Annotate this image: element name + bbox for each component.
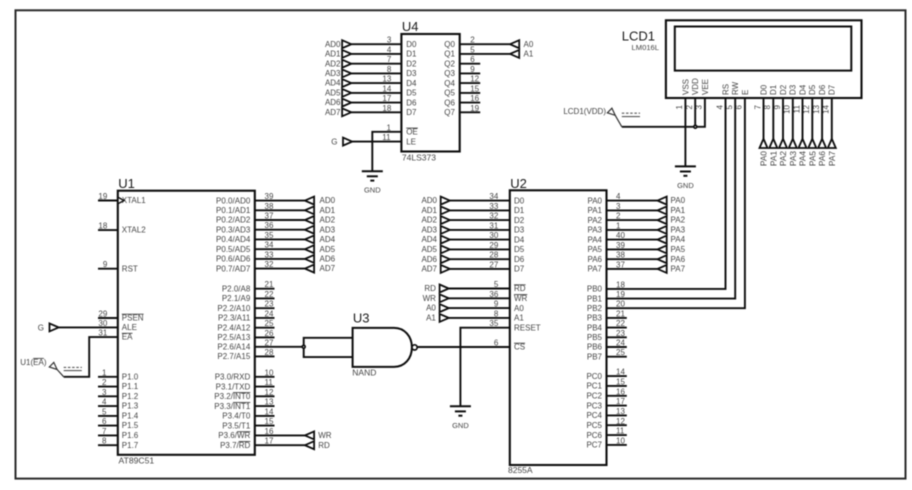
- svg-text:12: 12: [616, 417, 625, 426]
- svg-text:P3.6/WR: P3.6/WR: [218, 431, 250, 440]
- svg-text:RW: RW: [731, 81, 740, 95]
- svg-text:15: 15: [265, 417, 274, 426]
- svg-text:18: 18: [616, 280, 625, 289]
- svg-text:P0.3/AD3: P0.3/AD3: [216, 225, 251, 234]
- svg-text:PA3: PA3: [788, 151, 798, 166]
- svg-text:7: 7: [753, 104, 762, 109]
- svg-text:P1.4: P1.4: [122, 412, 139, 421]
- svg-text:P2.2/A10: P2.2/A10: [217, 304, 250, 313]
- svg-text:PSEN: PSEN: [122, 314, 144, 323]
- svg-text:7: 7: [387, 55, 392, 64]
- svg-text:PA2: PA2: [778, 151, 788, 166]
- svg-text:P0.4/AD4: P0.4/AD4: [216, 235, 251, 244]
- svg-text:36: 36: [489, 290, 498, 299]
- svg-text:D1: D1: [406, 50, 417, 59]
- svg-text:9: 9: [494, 300, 499, 309]
- svg-text:VSS: VSS: [681, 79, 690, 95]
- svg-text:PA5: PA5: [671, 245, 686, 254]
- svg-text:PC4: PC4: [586, 411, 602, 420]
- svg-text:D0: D0: [406, 40, 417, 49]
- svg-text:D6: D6: [406, 98, 417, 107]
- svg-text:AD2: AD2: [320, 216, 336, 225]
- svg-text:A0: A0: [524, 40, 534, 49]
- svg-text:27: 27: [265, 338, 274, 347]
- svg-text:PA3: PA3: [671, 226, 686, 235]
- svg-text:24: 24: [616, 339, 625, 348]
- svg-text:PB0: PB0: [587, 285, 603, 294]
- svg-text:PC7: PC7: [586, 441, 602, 450]
- svg-text:11: 11: [616, 427, 625, 436]
- svg-text:WR: WR: [514, 294, 528, 303]
- svg-text:P1.7: P1.7: [122, 441, 139, 450]
- svg-text:30: 30: [489, 231, 498, 240]
- svg-text:P0.6/AD6: P0.6/AD6: [216, 255, 251, 264]
- svg-text:PA4: PA4: [587, 235, 602, 244]
- svg-text:P2.4/A12: P2.4/A12: [217, 323, 250, 332]
- svg-text:P0.7/AD7: P0.7/AD7: [216, 264, 251, 273]
- svg-text:Q1: Q1: [444, 50, 455, 59]
- svg-text:17: 17: [265, 437, 274, 446]
- svg-text:P3.4/T0: P3.4/T0: [222, 412, 251, 421]
- svg-text:Q3: Q3: [444, 69, 455, 78]
- svg-text:23: 23: [265, 300, 274, 309]
- svg-text:34: 34: [265, 241, 274, 250]
- svg-text:D5: D5: [406, 89, 417, 98]
- svg-text:19: 19: [98, 192, 107, 201]
- svg-text:U1: U1: [118, 176, 135, 191]
- svg-text:U4: U4: [402, 19, 419, 34]
- svg-text:WR: WR: [423, 294, 437, 303]
- svg-text:U2: U2: [510, 176, 527, 191]
- svg-text:29: 29: [489, 241, 498, 250]
- svg-text:A0: A0: [514, 304, 524, 313]
- svg-text:PA6: PA6: [817, 151, 827, 166]
- svg-text:38: 38: [265, 202, 274, 211]
- svg-text:1: 1: [102, 368, 107, 377]
- svg-text:AD4: AD4: [421, 235, 437, 244]
- svg-text:13: 13: [616, 407, 625, 416]
- svg-text:NAND: NAND: [352, 367, 376, 377]
- svg-text:Q2: Q2: [444, 59, 455, 68]
- svg-text:U3: U3: [353, 311, 370, 326]
- svg-text:38: 38: [616, 251, 625, 260]
- svg-text:D6: D6: [514, 255, 525, 264]
- svg-text:7: 7: [102, 427, 107, 436]
- svg-text:OE: OE: [406, 128, 418, 137]
- svg-text:2: 2: [616, 212, 621, 221]
- svg-text:4: 4: [387, 45, 392, 54]
- svg-text:D1: D1: [514, 206, 525, 215]
- svg-text:6: 6: [494, 338, 499, 347]
- svg-text:P1.6: P1.6: [122, 431, 139, 440]
- svg-text:AD4: AD4: [320, 235, 336, 244]
- svg-text:AD7: AD7: [320, 264, 336, 273]
- svg-text:D7: D7: [406, 108, 417, 117]
- svg-text:PB6: PB6: [587, 343, 603, 352]
- svg-text:P1.2: P1.2: [122, 392, 139, 401]
- svg-text:D3: D3: [514, 226, 525, 235]
- svg-text:PA1: PA1: [768, 151, 778, 166]
- svg-text:PB7: PB7: [587, 352, 603, 361]
- svg-text:AD1: AD1: [325, 50, 341, 59]
- svg-text:8: 8: [387, 65, 392, 74]
- svg-text:PC6: PC6: [586, 431, 602, 440]
- svg-text:PA1: PA1: [587, 206, 602, 215]
- svg-text:24: 24: [265, 309, 274, 318]
- svg-text:PA0: PA0: [587, 196, 602, 205]
- svg-text:D4: D4: [514, 235, 525, 244]
- svg-text:WR: WR: [318, 431, 332, 440]
- svg-text:36: 36: [265, 221, 274, 230]
- svg-text:1: 1: [616, 221, 621, 230]
- svg-text:8255A: 8255A: [508, 465, 533, 475]
- svg-text:26: 26: [265, 329, 274, 338]
- svg-text:D6: D6: [818, 84, 827, 95]
- svg-text:CS: CS: [514, 343, 525, 352]
- svg-text:PA7: PA7: [827, 151, 837, 166]
- svg-text:13: 13: [382, 75, 391, 84]
- svg-text:AD0: AD0: [421, 196, 437, 205]
- svg-text:11: 11: [265, 378, 274, 387]
- svg-text:PB4: PB4: [587, 323, 603, 332]
- svg-text:74LS373: 74LS373: [402, 152, 436, 162]
- svg-text:RD: RD: [318, 441, 330, 450]
- svg-text:AD2: AD2: [421, 216, 437, 225]
- svg-text:3: 3: [102, 388, 107, 397]
- svg-text:17: 17: [616, 397, 625, 406]
- svg-text:RD: RD: [514, 284, 526, 293]
- svg-text:D3: D3: [406, 69, 417, 78]
- svg-text:PB1: PB1: [587, 294, 603, 303]
- svg-text:19: 19: [616, 290, 625, 299]
- svg-text:PC5: PC5: [586, 421, 602, 430]
- svg-text:23: 23: [616, 329, 625, 338]
- svg-text:27: 27: [489, 260, 498, 269]
- svg-text:PC2: PC2: [586, 392, 602, 401]
- svg-text:VEE: VEE: [701, 79, 710, 95]
- svg-text:37: 37: [265, 212, 274, 221]
- svg-text:PA4: PA4: [798, 151, 808, 166]
- svg-text:P3.2/INT0: P3.2/INT0: [214, 392, 251, 401]
- svg-text:5: 5: [102, 407, 107, 416]
- svg-text:AD6: AD6: [421, 255, 437, 264]
- svg-text:40: 40: [616, 231, 625, 240]
- svg-text:1: 1: [387, 123, 392, 132]
- svg-text:21: 21: [616, 309, 625, 318]
- svg-text:8: 8: [102, 437, 107, 446]
- svg-text:25: 25: [616, 348, 625, 357]
- svg-text:22: 22: [265, 290, 274, 299]
- svg-text:28: 28: [489, 251, 498, 260]
- svg-text:3: 3: [616, 202, 621, 211]
- svg-text:35: 35: [489, 319, 498, 328]
- svg-text:RESET: RESET: [514, 323, 541, 332]
- svg-text:33: 33: [489, 202, 498, 211]
- svg-text:P2.7/A15: P2.7/A15: [217, 352, 250, 361]
- svg-text:37: 37: [616, 260, 625, 269]
- svg-text:RST: RST: [122, 264, 138, 273]
- svg-text:PB2: PB2: [587, 304, 603, 313]
- svg-text:PB5: PB5: [587, 333, 603, 342]
- svg-text:14: 14: [265, 407, 274, 416]
- svg-text:2: 2: [102, 378, 107, 387]
- svg-text:5: 5: [494, 280, 499, 289]
- svg-text:AD3: AD3: [325, 69, 341, 78]
- svg-text:PA1: PA1: [671, 206, 686, 215]
- svg-text:AD5: AD5: [325, 89, 341, 98]
- svg-text:G: G: [38, 323, 44, 332]
- svg-text:AD5: AD5: [421, 245, 437, 254]
- svg-text:D0: D0: [514, 196, 525, 205]
- svg-text:8: 8: [494, 309, 499, 318]
- svg-text:RS: RS: [721, 84, 730, 95]
- svg-text:A1: A1: [524, 50, 534, 59]
- svg-text:13: 13: [265, 398, 274, 407]
- svg-text:D2: D2: [514, 216, 525, 225]
- svg-text:31: 31: [489, 221, 498, 230]
- svg-text:E: E: [741, 90, 750, 95]
- svg-text:PA4: PA4: [671, 235, 686, 244]
- svg-text:6: 6: [102, 417, 107, 426]
- svg-text:P3.5/T1: P3.5/T1: [222, 421, 251, 430]
- svg-text:AD0: AD0: [325, 40, 341, 49]
- svg-text:D4: D4: [406, 79, 417, 88]
- svg-text:AD1: AD1: [421, 206, 437, 215]
- svg-text:AD3: AD3: [320, 225, 336, 234]
- svg-text:LM016L: LM016L: [632, 43, 659, 52]
- svg-text:D3: D3: [789, 84, 798, 95]
- svg-text:PC1: PC1: [586, 382, 602, 391]
- svg-text:22: 22: [616, 319, 625, 328]
- svg-text:Q5: Q5: [444, 89, 455, 98]
- svg-text:16: 16: [265, 427, 274, 436]
- svg-text:PA0: PA0: [671, 196, 686, 205]
- svg-text:PA7: PA7: [671, 265, 686, 274]
- svg-text:18: 18: [382, 104, 391, 113]
- svg-text:A0: A0: [426, 304, 436, 313]
- svg-text:P1.5: P1.5: [122, 421, 139, 430]
- svg-text:AD6: AD6: [325, 98, 341, 107]
- svg-text:AT89C51: AT89C51: [119, 456, 155, 466]
- svg-text:16: 16: [616, 387, 625, 396]
- svg-text:EA: EA: [122, 333, 133, 342]
- svg-text:17: 17: [382, 94, 391, 103]
- svg-text:AD1: AD1: [320, 206, 336, 215]
- svg-text:11: 11: [382, 133, 391, 142]
- svg-text:32: 32: [265, 260, 274, 269]
- svg-text:RD: RD: [424, 284, 436, 293]
- svg-text:P1.3: P1.3: [122, 402, 139, 411]
- svg-text:ALE: ALE: [122, 323, 137, 332]
- svg-text:PA5: PA5: [807, 151, 817, 166]
- svg-text:LCD1: LCD1: [622, 28, 655, 43]
- svg-text:PA3: PA3: [587, 226, 602, 235]
- svg-text:P2.3/A11: P2.3/A11: [218, 314, 251, 323]
- svg-text:PC3: PC3: [586, 401, 602, 410]
- svg-text:25: 25: [265, 319, 274, 328]
- svg-text:39: 39: [616, 241, 625, 250]
- svg-text:28: 28: [265, 348, 274, 357]
- svg-text:XTAL1: XTAL1: [122, 196, 146, 205]
- svg-text:D0: D0: [759, 84, 768, 95]
- svg-text:PA2: PA2: [587, 216, 602, 225]
- svg-text:Q7: Q7: [444, 108, 455, 117]
- svg-text:31: 31: [98, 329, 107, 338]
- svg-text:4: 4: [102, 398, 107, 407]
- svg-text:D1: D1: [769, 84, 778, 95]
- svg-text:P2.5/A13: P2.5/A13: [217, 333, 250, 342]
- svg-text:21: 21: [265, 280, 274, 289]
- svg-text:VDD: VDD: [691, 78, 700, 95]
- svg-text:AD7: AD7: [421, 265, 437, 274]
- svg-text:14: 14: [382, 84, 391, 93]
- svg-text:P3.1/TXD: P3.1/TXD: [216, 382, 251, 391]
- svg-text:PA6: PA6: [671, 255, 686, 264]
- svg-text:30: 30: [98, 319, 107, 328]
- svg-text:9: 9: [103, 260, 108, 269]
- svg-text:U1(EA): U1(EA): [20, 358, 47, 367]
- svg-text:XTAL2: XTAL2: [122, 226, 146, 235]
- svg-text:P2.6/A14: P2.6/A14: [217, 343, 250, 352]
- svg-text:PA6: PA6: [587, 255, 602, 264]
- svg-text:PB3: PB3: [587, 314, 603, 323]
- svg-text:D5: D5: [514, 245, 525, 254]
- svg-text:10: 10: [616, 436, 625, 445]
- svg-text:AD0: AD0: [320, 196, 336, 205]
- svg-text:32: 32: [489, 212, 498, 221]
- svg-text:P1.0: P1.0: [122, 372, 139, 381]
- svg-text:P3.3/INT1: P3.3/INT1: [214, 402, 251, 411]
- svg-text:Q6: Q6: [444, 98, 455, 107]
- svg-text:P0.2/AD2: P0.2/AD2: [216, 216, 251, 225]
- svg-text:14: 14: [616, 368, 625, 377]
- svg-text:A1: A1: [514, 314, 524, 323]
- svg-text:PC0: PC0: [586, 372, 602, 381]
- svg-text:1: 1: [675, 104, 684, 109]
- svg-text:P0.5/AD5: P0.5/AD5: [216, 245, 251, 254]
- svg-text:LE: LE: [406, 137, 416, 146]
- svg-text:Q4: Q4: [444, 79, 455, 88]
- svg-text:29: 29: [98, 310, 107, 319]
- svg-text:PA7: PA7: [587, 265, 602, 274]
- svg-text:AD4: AD4: [325, 79, 341, 88]
- svg-text:18: 18: [98, 222, 107, 231]
- svg-text:P0.1/AD1: P0.1/AD1: [216, 206, 251, 215]
- svg-text:15: 15: [616, 377, 625, 386]
- svg-text:D5: D5: [808, 84, 817, 95]
- svg-text:12: 12: [265, 388, 274, 397]
- svg-text:AD2: AD2: [325, 59, 341, 68]
- svg-text:4: 4: [715, 104, 724, 109]
- svg-text:Q0: Q0: [444, 40, 455, 49]
- svg-text:P2.0/A8: P2.0/A8: [222, 284, 251, 293]
- svg-text:10: 10: [265, 368, 274, 377]
- svg-text:GND: GND: [452, 421, 469, 430]
- svg-text:P0.0/AD0: P0.0/AD0: [216, 196, 251, 205]
- svg-text:39: 39: [265, 192, 274, 201]
- svg-text:35: 35: [265, 231, 274, 240]
- svg-text:GND: GND: [677, 181, 694, 190]
- svg-text:AD6: AD6: [320, 255, 336, 264]
- svg-text:PA5: PA5: [587, 245, 602, 254]
- svg-text:PA2: PA2: [671, 216, 686, 225]
- svg-text:D4: D4: [798, 84, 807, 95]
- svg-text:D7: D7: [828, 84, 837, 95]
- svg-text:P3.7/RD: P3.7/RD: [220, 441, 250, 450]
- svg-text:3: 3: [387, 36, 392, 45]
- svg-text:LCD1(VDD): LCD1(VDD): [563, 107, 606, 116]
- svg-text:4: 4: [616, 192, 621, 201]
- svg-text:AD5: AD5: [320, 245, 336, 254]
- svg-text:P1.1: P1.1: [122, 382, 139, 391]
- svg-text:D7: D7: [514, 265, 525, 274]
- svg-text:33: 33: [265, 250, 274, 259]
- svg-text:PA0: PA0: [759, 151, 769, 166]
- svg-text:A1: A1: [426, 314, 436, 323]
- svg-text:AD7: AD7: [325, 108, 341, 117]
- svg-text:P2.1/A9: P2.1/A9: [222, 294, 251, 303]
- svg-text:D2: D2: [406, 59, 417, 68]
- svg-text:GND: GND: [364, 186, 381, 195]
- svg-text:D2: D2: [779, 84, 788, 95]
- svg-text:G: G: [331, 138, 337, 147]
- svg-text:P3.0/RXD: P3.0/RXD: [215, 373, 251, 382]
- svg-text:AD3: AD3: [421, 226, 437, 235]
- svg-text:20: 20: [616, 300, 625, 309]
- svg-text:34: 34: [489, 192, 498, 201]
